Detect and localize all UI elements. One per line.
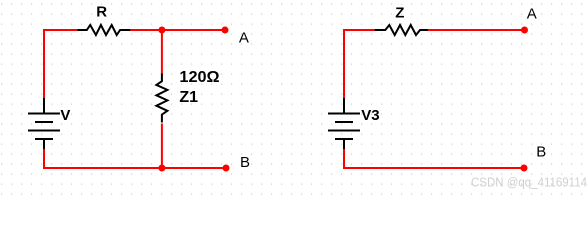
svg-text:V: V (60, 107, 70, 124)
label 120Ω value of Z1 (179, 69, 219, 86)
svg-text:Z: Z (395, 5, 404, 22)
wire: left circuit top-left segment (top rail left of R) (44, 30, 79, 99)
node A (right circuit) terminal dot (521, 27, 528, 34)
resistor Z1 (vertical) (156, 74, 167, 123)
label Z (395, 5, 404, 22)
label B (left circuit) (240, 154, 250, 171)
wire: top rail from Z to node A (right circuit) (428, 29, 525, 31)
resistor Z (375, 25, 429, 35)
label B (right circuit) (536, 143, 546, 160)
label V (60, 107, 70, 124)
wire: left circuit bottom rail (44, 149, 226, 168)
wire: right circuit bottom rail (344, 149, 524, 168)
node A (left circuit) junction dot at top of Z1 branch (158, 27, 165, 34)
watermark (471, 174, 587, 189)
label Z1 (179, 89, 198, 106)
label A (left circuit) (239, 29, 249, 46)
resistor R (78, 25, 132, 35)
label V3 (361, 107, 379, 124)
svg-text:A: A (527, 6, 537, 23)
wire: Z1 branch upper red segment (161, 30, 163, 75)
svg-text:Z1: Z1 (179, 89, 198, 106)
battery V3 (328, 98, 360, 150)
svg-text:A: A (239, 29, 249, 46)
svg-text:120Ω: 120Ω (179, 69, 219, 86)
svg-text:B: B (536, 143, 546, 160)
label R (96, 4, 107, 21)
svg-text:CSDN @qq_41169114: CSDN @qq_41169114 (471, 174, 587, 189)
svg-text:B: B (240, 154, 250, 171)
wire: top rail from R to node A (left circuit) (130, 29, 225, 31)
battery V (28, 98, 60, 150)
wire: right circuit top-left segment (top rail left of Z) (344, 30, 376, 99)
svg-text:R: R (96, 4, 107, 21)
wire: Z1 branch lower red segment (161, 124, 163, 169)
node B (right circuit) terminal dot (521, 165, 528, 172)
label A (right circuit) (527, 6, 537, 23)
svg-text:V3: V3 (361, 107, 379, 124)
node B (left circuit) junction dot at bottom of Z1 branch (158, 165, 165, 172)
node A (left circuit) terminal dot (222, 27, 229, 34)
node B (left circuit) terminal dot (223, 165, 230, 172)
